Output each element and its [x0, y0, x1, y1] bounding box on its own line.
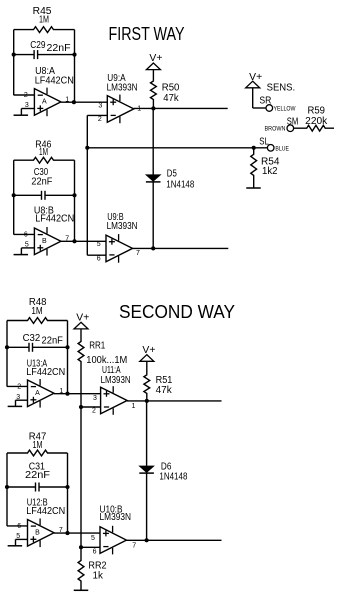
resistor R47: [7, 432, 68, 456]
wire divider vertical: [80, 362, 82, 560]
wire U12:B pin6: [7, 525, 28, 527]
wire D5 vertical: [152, 108, 154, 248]
pin 6 U10:B: [93, 549, 97, 556]
junction rail1 R50: [151, 106, 155, 110]
svg-text:D5: D5: [167, 168, 177, 179]
comparator U10:B: [100, 505, 132, 555]
wire loop1 left vertical: [13, 30, 15, 96]
junction U12:B output: [65, 531, 69, 535]
svg-text:6: 6: [24, 231, 28, 238]
capacitor C30: [14, 167, 75, 200]
wire D6 vertical: [146, 401, 148, 540]
pin 1 U13:A: [59, 388, 63, 395]
label YELLOW: [274, 106, 297, 113]
junction C29 right: [72, 53, 76, 57]
wire U8:A pin3: [21, 109, 34, 116]
svg-text:1: 1: [65, 96, 69, 103]
resistor R45: [14, 6, 75, 33]
pin 6 U8:B: [24, 231, 28, 238]
connector SL: [267, 145, 274, 152]
op-amp U8:A: [34, 66, 74, 116]
svg-text:7: 7: [136, 250, 140, 257]
svg-text:47k: 47k: [156, 385, 173, 396]
label BLUE: [275, 146, 289, 153]
svg-text:3: 3: [93, 395, 97, 402]
pin 5 U8:B: [25, 242, 29, 249]
svg-text:7: 7: [59, 527, 63, 534]
svg-text:2: 2: [24, 92, 28, 99]
resistor R50: [151, 80, 180, 108]
svg-text:1M: 1M: [39, 147, 48, 158]
wire U8:A output: [61, 101, 107, 103]
diode D6: [139, 461, 187, 482]
junction rail4 R51: [145, 399, 149, 403]
svg-text:LF442CN: LF442CN: [35, 76, 74, 87]
wire U12:B output: [54, 532, 100, 534]
svg-text:220k: 220k: [305, 116, 328, 127]
label BROWN: [265, 126, 286, 133]
svg-text:V+: V+: [249, 72, 262, 83]
label SENS.: [267, 82, 296, 93]
wire loop4 right vertical: [67, 453, 69, 533]
wire U13:A pin2: [7, 385, 28, 387]
pin 1 U8:A: [65, 96, 69, 103]
svg-text:1: 1: [137, 105, 141, 112]
svg-text:A: A: [35, 390, 40, 397]
op-amp U8:B: [34, 206, 74, 256]
svg-text:5: 5: [25, 242, 29, 249]
svg-text:LM393N: LM393N: [107, 83, 138, 94]
svg-text:RR1: RR1: [89, 341, 105, 352]
wire rail3 output: [133, 247, 229, 249]
wire loop4 left vertical: [6, 453, 8, 526]
resistor R48: [7, 297, 68, 323]
svg-text:SECOND WAY: SECOND WAY: [119, 302, 235, 322]
svg-text:7: 7: [132, 542, 136, 549]
resistor RR2: [78, 560, 107, 590]
power V+ R50: [146, 53, 162, 70]
junction C31 right: [65, 485, 69, 489]
wire V+ to SR: [253, 88, 266, 108]
svg-text:B: B: [35, 529, 40, 536]
pin 1 U11:A: [132, 403, 136, 410]
svg-text:6: 6: [17, 523, 21, 530]
comparator U9:B: [106, 212, 138, 263]
junction C32 left: [5, 345, 9, 349]
wire U13:A pin3: [16, 400, 28, 406]
svg-text:V+: V+: [149, 53, 162, 64]
pin 5 U12:B: [16, 533, 20, 540]
power V+ R51: [140, 345, 156, 361]
svg-text:LF442CN: LF442CN: [26, 506, 65, 517]
pin 2 U8:A: [24, 92, 28, 99]
svg-text:LF442CN: LF442CN: [35, 214, 74, 225]
ground U8:A: [14, 114, 28, 116]
wire U11:A pin2: [81, 406, 101, 408]
label SR: [259, 95, 271, 106]
svg-text:47k: 47k: [163, 93, 179, 104]
svg-text:5: 5: [91, 535, 95, 542]
title SECOND WAY: [119, 302, 235, 322]
junction rail3 D5: [151, 246, 155, 250]
junction C29 left: [12, 53, 16, 57]
svg-text:V+: V+: [142, 345, 155, 356]
svg-text:FIRST WAY: FIRST WAY: [109, 24, 185, 44]
svg-text:2: 2: [17, 383, 21, 390]
svg-text:22nF: 22nF: [25, 470, 50, 481]
wire loop3 left vertical: [6, 321, 8, 387]
svg-text:R59: R59: [308, 106, 326, 117]
pin 1 U9:A: [137, 105, 141, 112]
junction U13:A output: [65, 392, 69, 396]
resistor R46: [14, 140, 75, 164]
wire U9:B pin6: [87, 254, 106, 256]
junction U11:A pin2: [79, 405, 83, 409]
svg-text:A: A: [42, 98, 47, 105]
svg-text:1k: 1k: [93, 570, 104, 581]
resistor R51: [144, 374, 173, 401]
label SL: [259, 136, 269, 147]
ground U8:B: [14, 254, 28, 256]
wire U10:B pin6: [81, 546, 100, 548]
svg-text:C32: C32: [23, 333, 41, 344]
svg-text:3: 3: [16, 394, 20, 401]
junction C31 left: [5, 485, 9, 489]
wire rail4 output: [127, 400, 221, 402]
svg-text:7: 7: [65, 235, 69, 242]
power V+ SENS: [246, 72, 263, 88]
wire V+ to RR1: [80, 329, 82, 341]
pin 2 U9:A: [98, 116, 102, 123]
wire inverting feedback vertical: [86, 115, 88, 255]
svg-text:2: 2: [98, 116, 102, 123]
wire U8:B output: [61, 240, 106, 242]
resistor R54: [251, 148, 280, 188]
wire rail1 output: [134, 107, 228, 109]
wire U12:B pin5: [16, 539, 28, 545]
pin 3 U8:A: [25, 102, 29, 109]
wire loop2 right vertical: [74, 160, 76, 241]
title FIRST WAY: [109, 24, 185, 44]
wire V+ to R51: [146, 361, 148, 374]
wire V+ to R50: [152, 70, 154, 81]
wire U8:A pin2: [14, 94, 35, 96]
pin 2 U13:A: [17, 383, 21, 390]
junction rail5 D6: [145, 538, 149, 542]
pin 7 U12:B: [59, 527, 63, 534]
pin 6 U9:B: [97, 255, 101, 262]
comparator U9:A: [107, 73, 138, 123]
ground U13:A: [8, 405, 23, 407]
junction C30 right: [72, 193, 76, 197]
pin 5 U10:B: [91, 535, 95, 542]
svg-text:V+: V+: [76, 312, 89, 323]
svg-text:3: 3: [98, 103, 102, 110]
diode D5: [146, 168, 195, 190]
pin 3 U9:A: [98, 103, 102, 110]
svg-text:LM393N: LM393N: [100, 512, 132, 523]
label SM: [287, 117, 299, 128]
connector SM: [287, 125, 294, 132]
ground RR2: [74, 589, 89, 591]
svg-text:1M: 1M: [39, 15, 49, 26]
resistor R59: [294, 106, 334, 131]
pin 7 U9:B: [136, 250, 140, 257]
svg-text:YELLOW: YELLOW: [274, 106, 297, 113]
wire U9:A pin2: [87, 114, 107, 116]
svg-text:1N4148: 1N4148: [166, 180, 194, 191]
junction C32 right: [65, 345, 69, 349]
svg-text:1M: 1M: [33, 440, 43, 451]
capacitor C31: [7, 462, 68, 492]
junction U8:A output: [72, 100, 76, 104]
svg-text:22nF: 22nF: [47, 43, 71, 54]
svg-text:BROWN: BROWN: [265, 126, 286, 133]
svg-text:1k2: 1k2: [262, 166, 278, 177]
ground U12:B: [8, 545, 23, 547]
pin 6 U12:B: [17, 523, 21, 530]
pin 3 U11:A: [93, 395, 97, 402]
svg-text:22nF: 22nF: [31, 177, 52, 188]
wire loop1 right vertical: [74, 30, 76, 103]
junction C30 left: [12, 193, 16, 197]
svg-text:1N4148: 1N4148: [159, 472, 187, 483]
pin 7 U10:B: [132, 542, 136, 549]
pin 7 U8:B: [65, 235, 69, 242]
op-amp U12:B: [26, 498, 65, 547]
svg-text:SENS.: SENS.: [267, 82, 296, 93]
svg-text:LM393N: LM393N: [101, 375, 131, 386]
svg-text:BLUE: BLUE: [275, 146, 289, 153]
svg-text:1: 1: [132, 403, 136, 410]
svg-text:6: 6: [97, 255, 101, 262]
capacitor C29: [14, 40, 75, 59]
wire rail2 SL: [87, 147, 267, 149]
junction R54: [252, 146, 256, 150]
pin 5 U9:B: [97, 241, 101, 248]
pin 2 U11:A: [92, 407, 96, 414]
comparator U11:A: [101, 365, 131, 415]
junction U10:B pin6: [79, 545, 83, 549]
wire U13:A output: [54, 393, 101, 395]
connector SR: [266, 105, 273, 112]
wire loop3 right vertical: [67, 321, 69, 394]
svg-text:5: 5: [16, 533, 20, 540]
svg-text:5: 5: [97, 241, 101, 248]
resistor RR1: [78, 341, 127, 367]
svg-text:22nF: 22nF: [42, 335, 63, 346]
svg-text:2: 2: [92, 407, 96, 414]
junction rail2 left: [85, 146, 89, 150]
wire U8:B pin6: [14, 233, 35, 235]
power V+ RR1: [74, 312, 89, 329]
wire loop2 left vertical: [13, 160, 15, 234]
op-amp U13:A: [26, 359, 65, 408]
svg-text:LM393N: LM393N: [107, 221, 138, 232]
svg-text:C29: C29: [30, 40, 46, 51]
svg-text:6: 6: [93, 549, 97, 556]
junction U8:B output: [72, 239, 76, 243]
svg-text:LF442CN: LF442CN: [26, 367, 65, 378]
capacitor C32: [7, 333, 68, 352]
pin 3 U13:A: [16, 394, 20, 401]
svg-text:1M: 1M: [31, 306, 42, 317]
wire U8:B pin5: [21, 248, 34, 255]
wire rail5 output: [127, 539, 222, 541]
svg-text:B: B: [42, 238, 47, 245]
ground R54: [246, 187, 261, 189]
svg-text:1: 1: [59, 388, 63, 395]
svg-text:3: 3: [25, 102, 29, 109]
